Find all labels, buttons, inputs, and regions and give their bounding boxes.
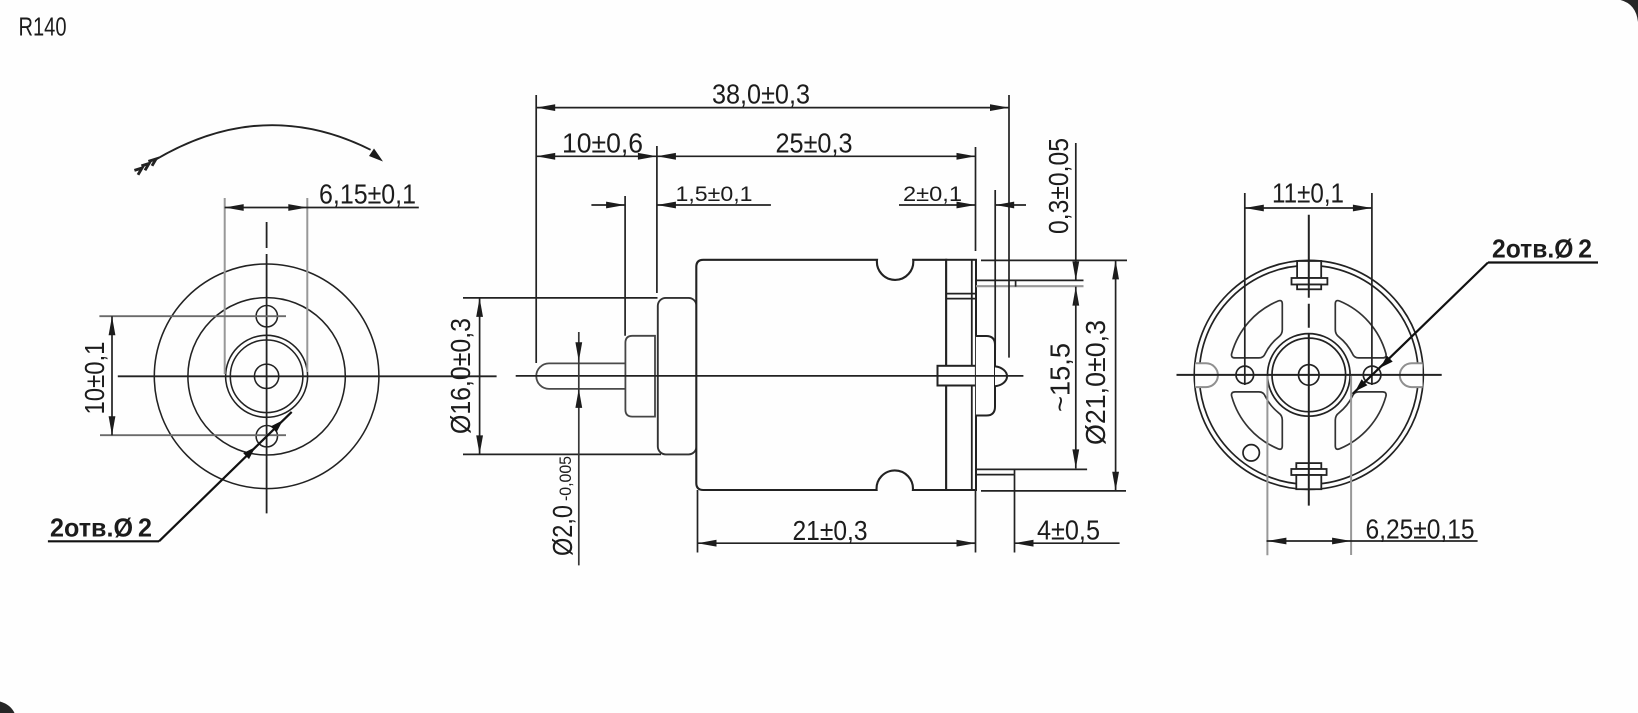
- svg-text:Ø2,0: Ø2,0: [547, 505, 578, 556]
- dim 6,15 ext line left (gray): [224, 198, 226, 374]
- bottom terminal upper line: [976, 468, 1087, 470]
- dim 11 line: [1245, 207, 1372, 209]
- bottom tab flange: [1291, 469, 1326, 475]
- dim 15,5 line: [1075, 287, 1077, 469]
- dim 10 arrow bottom: [109, 416, 116, 435]
- dim 25 arrow left: [657, 153, 676, 160]
- end cap inner vertical line: [971, 260, 973, 490]
- center view: [445, 79, 1127, 566]
- right rim notch: [1400, 363, 1423, 387]
- dim 38 ext line right: [1008, 95, 1010, 358]
- dim 10 ext line top: [99, 315, 286, 317]
- dim 10 arrow top: [109, 316, 116, 335]
- rim inner ring: [1199, 265, 1418, 484]
- dim 21d ext top: [981, 259, 1127, 261]
- right mount hole: [1363, 366, 1381, 384]
- bottom tab stub: [1296, 463, 1321, 469]
- slot lower-right: [1335, 392, 1386, 449]
- dim 2 left segment: [899, 204, 976, 206]
- dim 10 ext line bottom: [100, 434, 286, 436]
- boss outer circle: [1268, 334, 1351, 417]
- top tab stub: [1297, 285, 1321, 290]
- rotation chevron 1: [148, 159, 156, 166]
- top tab legs: [1297, 261, 1321, 278]
- boss inner circle: [1272, 338, 1346, 412]
- dim 38 arrow right: [990, 104, 1009, 111]
- bushing: [658, 298, 697, 455]
- dim 25 arrow right: [957, 153, 976, 160]
- dim 0,3 arrow up: [1072, 287, 1079, 306]
- outer circle: [154, 264, 379, 489]
- dim 21 line: [698, 542, 976, 544]
- dim 16 arrow up: [476, 298, 483, 317]
- dim 6,15 arrow left: [225, 204, 244, 211]
- dim 10,6 ext line right: [656, 146, 658, 293]
- dim 38 arrow left: [536, 104, 555, 111]
- rotation arc: [156, 125, 371, 159]
- dim 11 ext left: [1244, 193, 1246, 385]
- dim 6,25 arrow right: [1332, 538, 1351, 545]
- left rim notch: [1195, 363, 1218, 387]
- dim 2 ext line shared left: [975, 147, 977, 251]
- svg-text:6,15±0,1: 6,15±0,1: [319, 179, 416, 210]
- dim 2d segment upper: [578, 332, 580, 565]
- horizontal centerline: [118, 375, 497, 377]
- leader underline: [48, 540, 159, 542]
- motor body with notches: [696, 260, 946, 490]
- svg-text:~15,5: ~15,5: [1045, 343, 1076, 412]
- dim 2d arrow down: [575, 342, 582, 361]
- dim 6,15 arrow right: [288, 204, 307, 211]
- left mount hole: [1236, 366, 1254, 384]
- svg-text:2±0,1: 2±0,1: [903, 182, 962, 206]
- top terminal lower line: [976, 285, 1084, 287]
- dim 21d ext bottom: [981, 490, 1126, 492]
- dim 10,6 line: [536, 155, 657, 157]
- bottom terminal lower line: [976, 474, 1015, 476]
- leader line: [159, 412, 292, 541]
- dim 10,6 arrow right: [638, 153, 657, 160]
- dim 2d arrow up: [575, 389, 582, 408]
- dim 1,5 left segment: [591, 204, 625, 206]
- dim 11 ext right: [1371, 193, 1373, 385]
- dim 4 segment left: [961, 542, 975, 544]
- dim 2 ext line right: [994, 190, 996, 350]
- boss inner circle: [230, 340, 303, 413]
- svg-text:1,5±0,1: 1,5±0,1: [676, 182, 753, 206]
- svg-text:6,25±0,15: 6,25±0,15: [1366, 514, 1475, 545]
- center hole: [1299, 365, 1320, 386]
- boss outer circle: [226, 335, 308, 417]
- rotation chevron 2: [141, 164, 149, 171]
- bearing bump semicircle: [995, 366, 1007, 386]
- svg-text:R140: R140: [19, 12, 67, 42]
- dim 2 arrow right: [995, 202, 1014, 209]
- center hole: [254, 364, 278, 388]
- bottom tab legs: [1296, 475, 1321, 489]
- dim 0,3 line upper: [1075, 143, 1077, 280]
- horizontal centerline: [1177, 374, 1442, 376]
- dim 0,3 arrow down: [1072, 261, 1079, 280]
- leader arrowhead at hole: [1381, 356, 1393, 368]
- dim 4 ext right: [1014, 475, 1016, 553]
- top tab flange: [1292, 278, 1328, 285]
- dim 16 arrow down: [476, 435, 483, 454]
- top terminal end tick: [1015, 280, 1017, 286]
- corner blob bottom-left: [0, 702, 15, 713]
- dim 10,6 arrow left: [536, 153, 555, 160]
- dim 1,5 right segment: [657, 204, 771, 206]
- dim 38 line: [536, 107, 1009, 109]
- dim 6,25 line: [1267, 540, 1478, 542]
- dim 6,15 line: [225, 207, 419, 209]
- rim outer circle: [1194, 260, 1423, 489]
- svg-text:10±0,1: 10±0,1: [79, 342, 110, 415]
- dim 2 arrow left: [957, 202, 976, 209]
- top mount hole: [256, 306, 277, 327]
- shaft: [536, 363, 627, 389]
- dim 4 arrow: [1015, 540, 1034, 547]
- leader underline: [1488, 261, 1598, 263]
- top terminal upper line: [976, 279, 1084, 281]
- dim 38 ext line left: [535, 95, 537, 363]
- svg-text:-0,005: -0,005: [557, 456, 575, 501]
- dim 11 arrow left: [1245, 205, 1264, 212]
- dim 15,5 arrow down: [1072, 449, 1079, 468]
- leader line: [1353, 263, 1488, 394]
- dim 4 segment right: [1015, 542, 1120, 544]
- shaft collar: [625, 336, 655, 417]
- dim 11 arrow right: [1353, 205, 1372, 212]
- right view: [1177, 178, 1599, 556]
- dim 1,5 arrow right: [657, 202, 676, 209]
- dim 10 line: [111, 316, 113, 435]
- lower-left pin hole: [1243, 445, 1259, 461]
- svg-text:38,0±0,3: 38,0±0,3: [712, 79, 810, 110]
- slot upper-left: [1231, 301, 1282, 358]
- leader arrowhead at boss: [271, 420, 283, 432]
- svg-text:2отв.Ø 2: 2отв.Ø 2: [1492, 234, 1592, 264]
- svg-text:4±0,5: 4±0,5: [1037, 515, 1100, 546]
- bearing boss: [976, 336, 995, 416]
- middle circle: [188, 298, 345, 455]
- dim 6,25 arrow left: [1267, 538, 1286, 545]
- dim 21 ext right: [975, 490, 977, 553]
- dim 21d line: [1115, 260, 1117, 490]
- svg-text:Ø16,0±0,3: Ø16,0±0,3: [445, 318, 476, 434]
- left view: [48, 125, 497, 542]
- end cap: [946, 260, 976, 490]
- svg-text:2отв.Ø 2: 2отв.Ø 2: [50, 513, 152, 543]
- dim 1,5 arrow left: [606, 202, 625, 209]
- dim 1,5 ext line: [624, 196, 626, 336]
- dim 6,25 ext right (gray): [1350, 376, 1352, 555]
- brush housing rectangle: [938, 366, 976, 386]
- vertical centerline: [1308, 215, 1310, 506]
- rotation arc arrowhead: [369, 149, 383, 162]
- leader arrowhead at boss: [1355, 379, 1367, 391]
- dim 16 ext bottom: [463, 453, 661, 455]
- svg-text:21±0,3: 21±0,3: [793, 515, 868, 546]
- corner blob top-right: [1621, 0, 1638, 22]
- dim 6,25 ext left (gray): [1266, 376, 1268, 555]
- dim 21 arrow right: [957, 540, 976, 547]
- dim 16 line: [479, 298, 481, 455]
- svg-text:10±0,6: 10±0,6: [562, 128, 643, 159]
- vertical centerline: [266, 222, 268, 513]
- slot lower-left: [1231, 392, 1282, 449]
- svg-text:Ø21,0±0,3: Ø21,0±0,3: [1080, 320, 1111, 445]
- dim 16 ext top: [463, 297, 658, 299]
- dim 21d arrow down: [1112, 472, 1119, 491]
- bottom mount hole: [256, 426, 277, 447]
- end cap top step line lower: [946, 298, 976, 300]
- title R140: [19, 12, 67, 42]
- leader arrowhead at hole: [243, 447, 255, 459]
- dim 21 ext left: [697, 490, 699, 553]
- svg-text:11±0,1: 11±0,1: [1272, 178, 1344, 209]
- dim 6,15 ext line right (gray): [306, 198, 308, 372]
- dim 25 line: [657, 155, 976, 157]
- slot upper-right: [1335, 301, 1386, 358]
- rotation chevron 3: [134, 168, 142, 175]
- dim 21 arrow left: [698, 540, 717, 547]
- dim 2 right segment: [995, 204, 1026, 206]
- end cap top step line upper: [946, 293, 976, 295]
- svg-text:0,3±0,05: 0,3±0,05: [1043, 138, 1074, 234]
- svg-text:25±0,3: 25±0,3: [776, 128, 853, 159]
- dim 21d arrow up: [1112, 260, 1119, 279]
- bottom terminal end tick: [1014, 469, 1016, 474]
- axis centerline: [516, 375, 1024, 377]
